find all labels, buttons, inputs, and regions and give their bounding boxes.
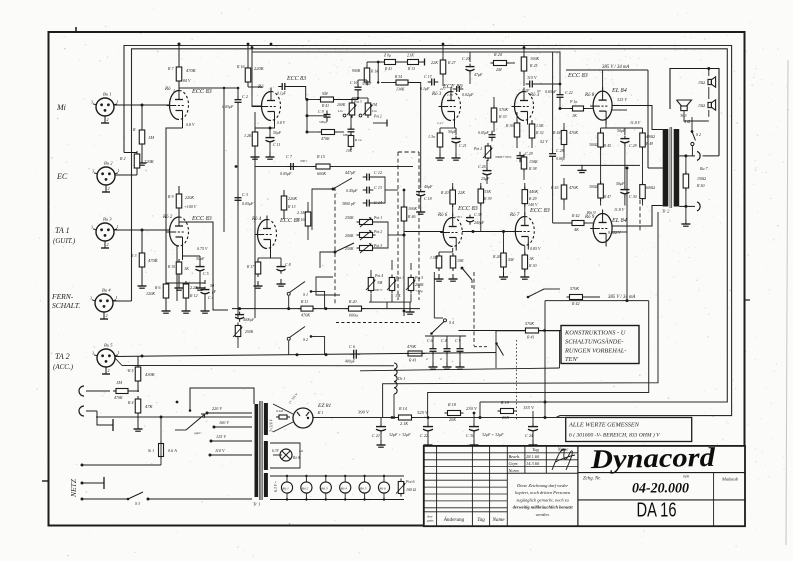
svg-text:20K: 20K (502, 415, 509, 420)
svg-text:C 6: C 6 (349, 344, 356, 349)
svg-text:47μF: 47μF (474, 72, 483, 77)
svg-text:325 V: 325 V (617, 97, 627, 102)
svg-text:0.08μ: 0.08μ (556, 157, 565, 161)
svg-text:470K: 470K (186, 68, 197, 73)
svg-text:390 V: 390 V (358, 410, 370, 415)
svg-text:R 10: R 10 (167, 265, 175, 269)
svg-text:Pot 1: Pot 1 (373, 216, 382, 220)
svg-text:R 13: R 13 (287, 204, 295, 209)
svg-text:Pot 5: Pot 5 (414, 276, 423, 280)
svg-text:R 33: R 33 (498, 114, 506, 119)
svg-text:m/m: m/m (683, 475, 690, 479)
svg-text:Tag: Tag (532, 447, 539, 452)
svg-text:KONSTRUKTIONS - U: KONSTRUKTIONS - U (564, 330, 626, 337)
svg-text:200K: 200K (337, 103, 346, 107)
svg-text:220K: 220K (288, 196, 297, 201)
svg-text:C 9: C 9 (318, 109, 324, 114)
svg-text:Lin: Lin (371, 109, 377, 113)
svg-text:C 28: C 28 (556, 148, 564, 153)
svg-text:R 13: R 13 (407, 67, 415, 71)
svg-text:100K: 100K (530, 56, 539, 61)
svg-text:C 7: C 7 (286, 154, 293, 159)
svg-text:S 2: S 2 (303, 337, 308, 342)
svg-text:0.8 V: 0.8 V (277, 121, 286, 125)
svg-text:C 3: C 3 (242, 192, 248, 197)
svg-text:220K: 220K (185, 195, 194, 200)
svg-text:EL 84: EL 84 (611, 217, 627, 224)
svg-text:220K: 220K (254, 66, 265, 71)
svg-text:Bu 7: Bu 7 (700, 166, 708, 171)
svg-text:R 3: R 3 (130, 253, 136, 258)
svg-text:Rö 3: Rö 3 (431, 92, 442, 97)
svg-text:SCHALT.: SCHALT. (52, 301, 80, 310)
svg-text:R 7: R 7 (167, 66, 174, 71)
svg-text:R 42: R 42 (571, 213, 579, 218)
svg-text:2.1M: 2.1M (297, 210, 306, 215)
svg-text:570K: 570K (525, 321, 534, 326)
svg-text:1: 1 (118, 350, 120, 355)
svg-text:TA 1: TA 1 (55, 226, 70, 235)
svg-text:32μF + 32μF: 32μF + 32μF (482, 432, 504, 437)
svg-text:14.3.60: 14.3.60 (526, 461, 540, 466)
svg-text:Rö 2: Rö 2 (162, 215, 173, 220)
svg-text:22 r: 22 r (440, 87, 446, 91)
svg-text:C 24: C 24 (525, 433, 533, 438)
svg-text:R: R (132, 127, 136, 132)
svg-text:R 6: R 6 (154, 285, 160, 290)
svg-text:125 V: 125 V (216, 434, 226, 439)
svg-text:S 4: S 4 (449, 320, 454, 325)
svg-text:230 V: 230 V (466, 406, 478, 411)
svg-text:470K: 470K (407, 344, 416, 349)
svg-text:900R: 900R (352, 69, 361, 73)
svg-text:La: La (298, 449, 303, 453)
svg-text:250K: 250K (245, 330, 254, 334)
svg-text:1.2K: 1.2K (244, 133, 252, 138)
svg-text:Norm.: Norm. (508, 468, 520, 473)
svg-text:Zchg. Nr.: Zchg. Nr. (583, 477, 601, 482)
svg-text:Mi: Mi (56, 103, 66, 112)
svg-text:2M: 2M (496, 67, 502, 72)
svg-text:C 21: C 21 (372, 433, 380, 438)
svg-text:10K: 10K (457, 258, 464, 263)
svg-text:C 14: C 14 (374, 200, 382, 205)
svg-text:0.75 V: 0.75 V (197, 246, 208, 251)
svg-text:0.85 V: 0.85 V (530, 246, 541, 251)
svg-text:385 V / 34 mA: 385 V / 34 mA (608, 295, 635, 300)
svg-text:447μF: 447μF (345, 170, 356, 175)
svg-text:Bu 5: Bu 5 (104, 343, 113, 348)
svg-text:R 43: R 43 (550, 185, 558, 190)
svg-text:P 1n: P 1n (569, 99, 577, 104)
svg-text:04-20.000: 04-20.000 (632, 481, 689, 497)
svg-text:300Ω: 300Ω (589, 143, 598, 147)
svg-text:C 5: C 5 (203, 271, 209, 276)
svg-text:155 V: 155 V (523, 405, 535, 410)
svg-text:Änderung: Änderung (443, 516, 465, 523)
svg-text:Tr 2: Tr 2 (662, 209, 670, 214)
svg-text:250K: 250K (345, 246, 354, 251)
svg-text:22K: 22K (431, 60, 438, 65)
svg-text:Tr 1: Tr 1 (253, 502, 260, 507)
svg-text:240μF: 240μF (474, 221, 485, 225)
svg-text:0.1Ω: 0.1Ω (276, 409, 283, 413)
svg-text:Rö: Rö (257, 85, 264, 90)
svg-text:200K: 200K (345, 233, 354, 238)
svg-text:C 29: C 29 (525, 151, 533, 156)
svg-text:S 3: S 3 (135, 501, 140, 506)
svg-text:R 41: R 41 (408, 358, 416, 363)
svg-text:25μF: 25μF (481, 176, 490, 181)
svg-text:0.65μF: 0.65μF (545, 89, 557, 94)
svg-text:5M: 5M (508, 257, 514, 262)
svg-text:110 V: 110 V (215, 448, 225, 453)
svg-text:DA 16: DA 16 (637, 500, 677, 522)
svg-text:C 8: C 8 (285, 262, 291, 267)
svg-text:28.1.60: 28.1.60 (526, 454, 540, 459)
svg-text:TEN': TEN' (565, 356, 579, 363)
svg-text:4K: 4K (574, 227, 579, 232)
svg-text:Tr 3: Tr 3 (680, 113, 687, 118)
svg-text:Rö 6: Rö 6 (437, 213, 448, 218)
svg-text:R 45: R 45 (603, 144, 611, 148)
svg-text:R 39: R 39 (483, 196, 491, 201)
svg-text:6.3 V ~: 6.3 V ~ (274, 481, 278, 492)
svg-text:220K: 220K (144, 159, 155, 164)
svg-text:R 41: R 41 (321, 104, 329, 108)
svg-text:0.05μF: 0.05μF (478, 131, 490, 135)
svg-text:600ω: 600ω (349, 313, 358, 318)
svg-text:140 V: 140 V (528, 202, 538, 207)
svg-text:C 22: C 22 (565, 90, 573, 95)
svg-text:10K: 10K (346, 149, 353, 153)
svg-text:600K: 600K (317, 171, 326, 176)
svg-text:ECC 83: ECC 83 (286, 76, 306, 82)
svg-text:47K: 47K (145, 404, 154, 409)
svg-text:Rö 1: Rö 1 (282, 487, 290, 491)
svg-text:Rö 3: Rö 3 (529, 93, 540, 98)
svg-text:385 V / 34 mA: 385 V / 34 mA (602, 65, 629, 70)
svg-text:Bu 3: Bu 3 (103, 217, 112, 222)
svg-text:0.02μF: 0.02μF (462, 92, 474, 97)
svg-text:2.1K: 2.1K (400, 421, 408, 426)
svg-text:EC: EC (56, 172, 68, 181)
svg-text:Rö 6: Rö 6 (379, 487, 387, 491)
svg-text:C 22: C 22 (420, 433, 428, 438)
svg-text:470K: 470K (114, 395, 123, 400)
svg-text:2: 2 (108, 186, 110, 191)
svg-text:EL 84: EL 84 (611, 87, 627, 94)
svg-text:0.05μF: 0.05μF (222, 104, 234, 109)
svg-text:90: 90 (537, 89, 541, 93)
svg-text:Pot 2: Pot 2 (373, 115, 382, 119)
svg-text:1: 1 (173, 88, 175, 93)
svg-text:570K: 570K (499, 107, 508, 112)
svg-text:R 42: R 42 (571, 301, 579, 306)
svg-text:R 26: R 26 (492, 254, 500, 259)
svg-text:33K: 33K (484, 189, 491, 194)
svg-text:430K: 430K (145, 372, 156, 377)
svg-text:R 41: R 41 (526, 335, 534, 340)
svg-text:R 18: R 18 (447, 402, 457, 407)
svg-text:3: 3 (92, 351, 94, 356)
svg-text:C 29: C 29 (629, 143, 637, 148)
svg-text:C 11: C 11 (273, 142, 280, 147)
svg-text:134K: 134K (396, 88, 405, 92)
svg-text:Pot 3: Pot 3 (373, 244, 382, 248)
svg-text:ECC 83: ECC 83 (529, 207, 550, 214)
svg-text:6.3V: 6.3V (272, 449, 279, 453)
svg-text:Pot 2: Pot 2 (473, 147, 482, 151)
svg-text:130K: 130K (529, 159, 538, 164)
svg-text:84 V: 84 V (183, 78, 191, 83)
svg-text:0.1μF: 0.1μF (277, 92, 287, 96)
svg-text:R 29: R 29 (528, 196, 536, 201)
svg-text:40μF: 40μF (424, 184, 433, 189)
svg-text:R 11: R 11 (300, 299, 308, 304)
svg-text:3: 3 (91, 100, 93, 105)
svg-text:Pot 2: Pot 2 (373, 230, 382, 234)
svg-text:300K+30%: 300K+30% (495, 155, 511, 159)
svg-text:120K: 120K (146, 291, 155, 296)
svg-text:C 4: C 4 (441, 338, 447, 343)
svg-text:1: 1 (117, 99, 119, 104)
svg-text:Diese Zeichnung darf weder: Diese Zeichnung darf weder (516, 483, 568, 488)
svg-text:SCHALTUNGSÄNDE-: SCHALTUNGSÄNDE- (565, 339, 623, 346)
svg-text:6 ( 301600 -V- BEREICH, 833 OH: 6 ( 301600 -V- BEREICH, 833 OHM ) V (569, 432, 660, 439)
svg-text:R 30: R 30 (528, 263, 536, 268)
svg-text:2: 2 (107, 117, 109, 122)
svg-text:300 V: 300 V (374, 288, 383, 292)
svg-text:S 2: S 2 (696, 132, 701, 137)
svg-text:3: 3 (91, 225, 93, 230)
svg-text:R 46: R 46 (407, 214, 415, 219)
svg-text:derweitig mißbräuchlich benutz: derweitig mißbräuchlich benutzt (513, 505, 574, 510)
svg-text:3800 pF: 3800 pF (342, 201, 356, 206)
svg-text:1M: 1M (148, 135, 154, 140)
svg-text:1K: 1K (184, 266, 189, 271)
svg-text:R 14: R 14 (370, 70, 378, 74)
svg-text:3: 3 (92, 169, 94, 174)
svg-text:2×316 V: 2×316 V (270, 418, 274, 432)
svg-text:EZ 81: EZ 81 (317, 403, 332, 409)
svg-text:R 15: R 15 (316, 154, 325, 159)
svg-text:0.6 A: 0.6 A (168, 448, 177, 453)
svg-text:1K: 1K (572, 113, 577, 118)
svg-text:R 1: R 1 (317, 410, 323, 415)
svg-text:R 36: R 36 (505, 123, 513, 128)
svg-text:50μF: 50μF (273, 131, 282, 135)
svg-text:Rö 4: Rö 4 (340, 487, 348, 491)
svg-text:C 2: C 2 (242, 94, 248, 99)
svg-text:21K: 21K (407, 53, 414, 58)
svg-text:RUNGEN VORBEHAL-: RUNGEN VORBEHAL- (564, 348, 626, 355)
svg-text:490Ω: 490Ω (646, 134, 655, 139)
svg-text:1.5M: 1.5M (430, 256, 439, 260)
svg-text:100 Ω: 100 Ω (406, 487, 416, 492)
svg-text:32μF + 32μF: 32μF + 32μF (389, 432, 411, 437)
svg-text:115 V: 115 V (527, 75, 537, 80)
svg-text:ECC 83: ECC 83 (191, 215, 212, 222)
svg-text:R 34: R 34 (394, 75, 402, 79)
svg-text:330μF: 330μF (362, 82, 372, 86)
svg-text:200K: 200K (415, 282, 424, 287)
svg-text:Rö: Rö (164, 87, 171, 92)
svg-text:R 19: R 19 (500, 400, 510, 405)
svg-text:15Ω: 15Ω (698, 80, 705, 85)
svg-text:R 38: R 38 (528, 166, 536, 171)
svg-text:R 5: R 5 (127, 368, 133, 373)
svg-text:1: 1 (116, 295, 118, 300)
svg-text:R 20: R 20 (440, 190, 448, 195)
svg-text:ALLE WERTE GEMESSEN: ALLE WERTE GEMESSEN (568, 422, 640, 429)
svg-text:2: 2 (426, 357, 428, 361)
svg-text:Bu 2: Bu 2 (104, 161, 113, 166)
svg-text:TA 2: TA 2 (55, 352, 70, 361)
svg-text:0.05μF: 0.05μF (242, 201, 254, 206)
svg-text:52 V: 52 V (540, 139, 548, 144)
svg-text:R 32: R 32 (535, 130, 543, 135)
svg-text:2μnC: 2μnC (194, 431, 202, 435)
svg-text:3: 3 (90, 296, 92, 301)
svg-text:R 47: R 47 (603, 195, 612, 199)
svg-text:Si 1: Si 1 (148, 448, 154, 453)
svg-text:Rö 8: Rö 8 (584, 93, 595, 98)
svg-text:Pot 6: Pot 6 (405, 479, 415, 484)
svg-text:50μF: 50μF (196, 256, 205, 261)
svg-text:150Ω: 150Ω (697, 176, 706, 181)
svg-text:1.35: 1.35 (447, 93, 453, 97)
svg-text:Rö 3: Rö 3 (320, 487, 328, 491)
svg-text:gabe: gabe (427, 519, 434, 523)
svg-text:Rö 9: Rö 9 (584, 215, 595, 220)
svg-text:C 6: C 6 (427, 338, 433, 343)
svg-text:Rö 8: Rö 8 (292, 456, 300, 460)
svg-text:R 14: R 14 (398, 406, 407, 411)
svg-text:170 r: 170 r (455, 215, 463, 219)
svg-text:Bu 4: Bu 4 (102, 288, 111, 293)
svg-text:Lin: Lin (337, 109, 343, 113)
svg-text:Rö 7: Rö 7 (509, 213, 520, 218)
svg-text:325 V: 325 V (417, 410, 429, 415)
svg-text:1: 1 (118, 168, 120, 173)
svg-text:5M: 5M (322, 91, 328, 96)
svg-text:Dr 1: Dr 1 (397, 376, 405, 381)
svg-text:400μF: 400μF (345, 360, 356, 364)
svg-text:R 49: R 49 (645, 142, 653, 146)
svg-text:C 18: C 18 (424, 196, 432, 201)
svg-text:R 16: R 16 (296, 217, 304, 222)
svg-text:R 24: R 24 (493, 52, 502, 57)
svg-text:50μF: 50μF (616, 181, 625, 186)
svg-text:+100 V: +100 V (184, 204, 197, 209)
svg-text:R 2: R 2 (119, 156, 125, 161)
svg-text:1M: 1M (372, 103, 378, 107)
svg-text:(GUIT.): (GUIT.) (53, 237, 76, 245)
svg-text:300Ω: 300Ω (589, 185, 598, 189)
svg-text:C 17: C 17 (424, 74, 433, 79)
svg-text:ECC 83: ECC 83 (191, 88, 212, 95)
svg-text:470K: 470K (301, 313, 310, 318)
svg-text:Pot 3: Pot 3 (353, 100, 362, 104)
svg-text:Dynacord: Dynacord (589, 442, 715, 474)
svg-text:R 20: R 20 (348, 299, 356, 304)
svg-text:2: 2 (107, 242, 109, 247)
svg-text:ECC 83: ECC 83 (567, 72, 588, 79)
svg-text:werden.: werden. (535, 512, 549, 517)
svg-text:R 16: R 16 (236, 64, 244, 69)
svg-text:9.322 V: 9.322 V (608, 230, 621, 235)
svg-text:0.8 V: 0.8 V (186, 122, 195, 127)
svg-text:Tag: Tag (477, 517, 485, 523)
svg-text:(ACC.): (ACC.) (53, 363, 74, 371)
svg-text:11.8 V: 11.8 V (630, 120, 641, 125)
svg-text:100K: 100K (408, 206, 417, 211)
svg-text:R 9: R 9 (167, 194, 173, 199)
svg-text:0.1F: 0.1F (522, 88, 530, 93)
svg-text:R 12: R 12 (189, 293, 197, 298)
svg-text:1.2 r: 1.2 r (437, 121, 444, 125)
svg-text:Rö 9: Rö 9 (586, 210, 596, 215)
svg-text:Rö 5: Rö 5 (359, 487, 367, 491)
svg-text:1.3n: 1.3n (428, 134, 435, 139)
svg-text:Bearb.: Bearb. (509, 454, 521, 459)
svg-text:Z: Z (440, 357, 442, 361)
svg-text:Pot 4: Pot 4 (374, 274, 383, 278)
svg-text:Rö 2: Rö 2 (301, 487, 309, 491)
svg-text:160 V: 160 V (219, 420, 229, 425)
svg-text:15Ω: 15Ω (698, 103, 705, 108)
svg-text:4000μF: 4000μF (243, 318, 255, 322)
svg-text:4 Ω: 4 Ω (684, 119, 690, 124)
svg-text:R 27: R 27 (447, 60, 456, 65)
svg-text:220 V: 220 V (212, 406, 222, 411)
svg-text:470K: 470K (321, 136, 330, 141)
svg-text:1: 1 (117, 224, 119, 229)
svg-text:C 20: C 20 (462, 56, 470, 61)
svg-text:R 14: R 14 (354, 138, 362, 142)
svg-text:470K: 470K (569, 185, 578, 190)
svg-text:C 21: C 21 (459, 143, 467, 148)
svg-text:S 1: S 1 (303, 292, 308, 297)
svg-text:C 12: C 12 (374, 170, 382, 175)
svg-text:2: 2 (106, 313, 108, 318)
svg-text:Maßstab: Maßstab (721, 477, 739, 482)
svg-text:R 4: R 4 (127, 400, 133, 405)
svg-text:Rö 4: Rö 4 (251, 217, 262, 222)
svg-text:3M: 3M (377, 280, 383, 285)
svg-text:FERN-: FERN- (51, 292, 74, 301)
svg-text:470K: 470K (148, 258, 159, 263)
svg-text:2: 2 (108, 368, 110, 373)
svg-text:1M.: 1M. (395, 293, 401, 298)
svg-text:11.8 V: 11.8 V (614, 207, 625, 212)
svg-text:0.05μF: 0.05μF (280, 171, 292, 176)
svg-text:300 r: 300 r (300, 159, 308, 163)
svg-text:22K: 22K (458, 190, 465, 195)
svg-text:570K: 570K (570, 286, 579, 291)
svg-text:Bu 1: Bu 1 (103, 92, 112, 97)
svg-text:250K: 250K (345, 215, 354, 220)
svg-text:1K: 1K (529, 256, 534, 261)
svg-text:R 17: R 17 (246, 265, 255, 269)
svg-text:600Ω: 600Ω (646, 185, 655, 190)
svg-text:440K: 440K (529, 189, 538, 194)
svg-text:C 13: C 13 (374, 185, 382, 190)
svg-text:R 25: R 25 (529, 63, 537, 68)
svg-text:1.5K: 1.5K (536, 123, 544, 128)
svg-text:Z 0μ: Z 0μ (384, 54, 391, 58)
